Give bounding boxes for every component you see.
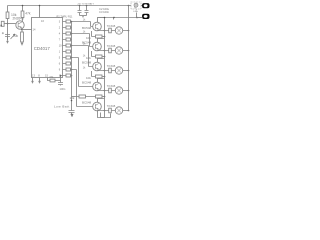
lamp L4: [115, 87, 122, 94]
Q2 collector riser: [98, 18, 105, 23]
collector resistor stage 2: [92, 36, 105, 38]
ground join wire: [80, 15, 87, 17]
wire box to terminal: [141, 5, 143, 7]
collector resistor stage 3: [92, 56, 105, 58]
lamp bus dot 2: [128, 50, 130, 52]
lamp L5: [115, 107, 122, 114]
ground arrow left: [6, 41, 8, 44]
svg-text:Low Batt: Low Batt: [54, 105, 70, 109]
pin 2 wire: [63, 27, 72, 29]
Q1 emitter drop: [21, 28, 24, 43]
ground arrow caps: [82, 16, 84, 18]
bus dot row11: [71, 75, 73, 77]
lamp row wire 1: [105, 30, 129, 32]
resistor R4: [66, 32, 71, 35]
junction dot row 10: [71, 45, 73, 47]
transistor Q4 BC548: [93, 62, 102, 71]
svg-text:10k: 10k: [13, 34, 19, 38]
capacitor C2: [78, 6, 82, 16]
stage 1 base wire: [72, 22, 93, 27]
svg-text:100n: 100n: [60, 87, 66, 91]
transistor Q6 BC548: [93, 102, 102, 111]
wire to IC clock: [22, 29, 32, 31]
pin 1 wire: [63, 51, 72, 53]
lamp bus dot 1: [128, 30, 130, 32]
join bus x71.5: [71, 22, 73, 111]
stage 5 base wire: [72, 70, 93, 107]
ground arrow Q1: [21, 43, 23, 46]
series box 1: [109, 28, 112, 33]
collector resistor stage 4: [92, 76, 105, 78]
node B1 junction dot: [21, 29, 23, 31]
junction dot row 3: [71, 21, 73, 23]
svg-text:BC548: BC548: [82, 61, 92, 65]
svg-text:0.3A: 0.3A: [133, 10, 138, 13]
dashed drop: [136, 9, 138, 13]
resistor R4 emitter: [21, 32, 24, 42]
dashed lamp box: [131, 2, 141, 9]
lamp return bus: [128, 6, 130, 112]
ground bus x104.5: [101, 18, 105, 118]
pin 16 riser: [39, 6, 41, 18]
bus top dot: [104, 17, 106, 19]
stage 3 base wire: [72, 46, 93, 67]
ground arrow pin8: [38, 81, 40, 84]
lamp row wire 3: [105, 70, 129, 72]
lamp L1: [115, 27, 122, 34]
Q6 collector riser: [98, 99, 105, 103]
C1 plus sign: [2, 32, 4, 34]
svg-text:1k: 1k: [83, 68, 86, 70]
svg-text:R2 THRU R11: R2 THRU R11: [57, 16, 73, 19]
rail stub to lamp box: [129, 5, 132, 7]
transistor Q5 BC548: [93, 82, 102, 91]
resistor R3 top: [21, 11, 24, 18]
series box 4: [109, 88, 112, 93]
terminal T1: [142, 3, 149, 8]
bus dot coll 2: [104, 36, 106, 38]
emitter bus dot 2: [104, 50, 106, 52]
svg-text:TIC31B: TIC31B: [107, 65, 116, 68]
lamp row wire 5: [105, 110, 129, 112]
lamp L3: [115, 67, 122, 74]
svg-text:BC548: BC548: [82, 26, 92, 30]
capacitor C3: [85, 6, 89, 16]
Q4 collector riser: [98, 59, 105, 63]
resistor R1: [6, 12, 9, 19]
svg-text:BC548: BC548: [82, 101, 92, 105]
reset resistor: [50, 79, 55, 82]
resistor R2: [66, 20, 71, 23]
svg-text:TIC31B: TIC31B: [107, 25, 116, 28]
node rail dot: [22, 5, 24, 7]
series box 2: [109, 48, 112, 53]
transistor Q2 BC548: [93, 22, 102, 31]
lamp bus dot 5: [128, 110, 130, 112]
lamp bus dot 4: [128, 90, 130, 92]
lamp L2: [115, 47, 122, 54]
capacitor C1: [5, 35, 10, 41]
input terminal box: [1, 21, 4, 26]
lamp row wire 4: [105, 90, 129, 92]
lamp feed bus y17: [98, 17, 142, 19]
resistor R5: [66, 38, 71, 41]
IC U1 CD4017 box: [32, 18, 63, 78]
pin 9 wire: [63, 69, 72, 71]
left rail wire: [7, 6, 9, 41]
Q3 emitter wire: [98, 50, 105, 52]
svg-text:10k: 10k: [86, 76, 91, 80]
emitter bus dot 1: [104, 30, 106, 32]
Q4 emitter wire: [98, 70, 105, 72]
pin 5 wire: [63, 57, 72, 59]
input dark mark: [1, 25, 2, 27]
emitter bus dot 4: [104, 90, 106, 92]
ground arrow bottom: [71, 114, 74, 117]
emitter bus dot 3: [104, 70, 106, 72]
svg-text:10k: 10k: [86, 36, 91, 40]
resistor R6: [66, 44, 71, 47]
lamp bus dot 3: [128, 70, 130, 72]
stage5 bottom loop: [98, 111, 111, 118]
resistor R11: [66, 74, 71, 77]
bus dot coll 5: [104, 96, 106, 98]
pin 16 rail dot: [39, 5, 41, 7]
wire base: [4, 23, 16, 25]
bottom capacitor C5: [69, 111, 75, 115]
tick on feed bus: [113, 18, 115, 20]
node reset dot: [60, 75, 62, 77]
pin 7 wire: [63, 39, 72, 41]
C1 arrow: [11, 34, 16, 39]
rail end dot: [128, 5, 130, 7]
wire bus to T2: [137, 17, 143, 19]
Q6 emitter wire: [98, 110, 105, 112]
emitter bus dot 5: [104, 110, 106, 112]
stage 4 base wire: [72, 58, 93, 87]
Q5 collector riser: [98, 79, 105, 83]
bus dot coll 4: [104, 76, 106, 78]
rail dot C2: [79, 5, 81, 7]
svg-text:TIC31B: TIC31B: [107, 85, 116, 88]
pin 10 wire: [63, 45, 72, 47]
svg-text:47k: 47k: [25, 12, 31, 16]
svg-text:CD4017: CD4017: [34, 46, 51, 51]
external lamp L: [134, 3, 138, 7]
junction dot row 9: [71, 69, 73, 71]
lamp row wire 2: [105, 50, 129, 52]
resistor R7: [66, 50, 71, 53]
join bus bottom dot: [71, 100, 73, 102]
pin 6 wire: [63, 63, 72, 65]
junction dot row 5: [71, 57, 73, 59]
bus dot coll 3: [104, 56, 106, 58]
Q1 collector riser: [21, 6, 23, 23]
transistor Q1 2N2646: [16, 21, 24, 29]
svg-text:C3 100n: C3 100n: [99, 10, 110, 14]
second box row5: [96, 95, 103, 98]
series box 3: [109, 68, 112, 73]
stage 2 base wire: [72, 34, 93, 47]
pin 15 reset wire: [48, 76, 64, 86]
Q2 emitter wire: [98, 30, 105, 32]
pin 8 drop wire: [39, 78, 41, 82]
pin 4 wire: [63, 33, 72, 35]
pin 13 drop wire: [32, 78, 34, 82]
series box 5: [109, 108, 112, 113]
resistor R9: [66, 62, 71, 65]
Q5 emitter wire: [98, 90, 105, 92]
ground arrow pin13: [31, 81, 33, 84]
junction dashed-bus dot: [136, 17, 138, 19]
pin 3 wire: [63, 21, 72, 23]
terminal T2: [142, 14, 149, 19]
svg-text:BC548: BC548: [82, 81, 92, 85]
svg-text:TIC31B: TIC31B: [107, 45, 116, 48]
resistor R3: [66, 26, 71, 29]
pin 11 wire: [61, 75, 72, 77]
transistor Q3 BC548: [93, 42, 102, 51]
svg-text:TIC31B: TIC31B: [107, 105, 116, 108]
resistor R10: [66, 68, 71, 71]
Q3 collector riser: [98, 39, 105, 43]
collector resistor stage 5: [75, 96, 105, 98]
junction dot row 4: [71, 33, 73, 35]
resistor R8: [66, 56, 71, 59]
node A junction dot: [7, 23, 9, 25]
rail dot C3: [86, 5, 88, 7]
top +V rail: [8, 5, 129, 7]
